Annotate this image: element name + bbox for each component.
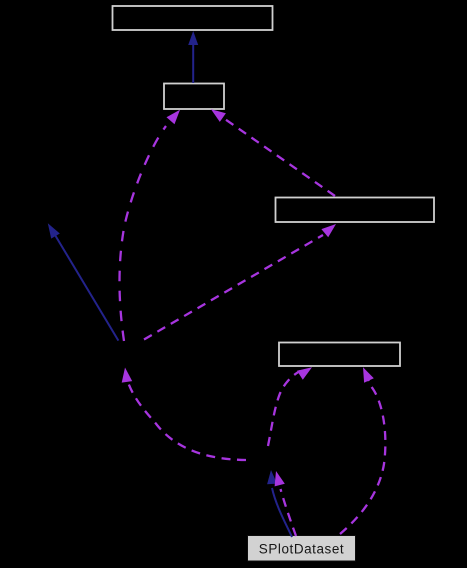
node box3 (right middle wide box): [276, 198, 435, 223]
edge E5 inheritance nodeA to offscreen (solid navy): [48, 223, 119, 340]
node box1 (top wide box): [113, 6, 273, 30]
edge E7 inheritance SPlotDataset to nodeB (solid navy curve): [267, 470, 292, 537]
svg-text:SPlotDataset: SPlotDataset: [259, 542, 344, 557]
node box4 (lower right box): [279, 343, 400, 367]
edge E9 usage nodeB to box4 (dashed purple curve): [268, 367, 312, 446]
edge E10 usage SPlotDataset to box4 (dashed purple curve): [340, 367, 385, 534]
edge E8 usage SPlotDataset to nodeB (dashed purple curve): [275, 471, 296, 536]
edge E1 inheritance box2 to box1 (solid navy): [188, 31, 198, 83]
edge E6 usage nodeB to nodeA (dashed purple curve): [122, 368, 246, 461]
edge E3 usage box3 to box2 (dashed purple line): [211, 109, 335, 196]
node box2 (small box under box1): [164, 84, 224, 110]
edge E2 usage nodeA to box2 (dashed purple curve): [120, 110, 181, 341]
edge E4 usage nodeA to box3 (dashed purple line): [144, 224, 336, 340]
node SPlotDataset (filled gray box): [248, 536, 356, 562]
